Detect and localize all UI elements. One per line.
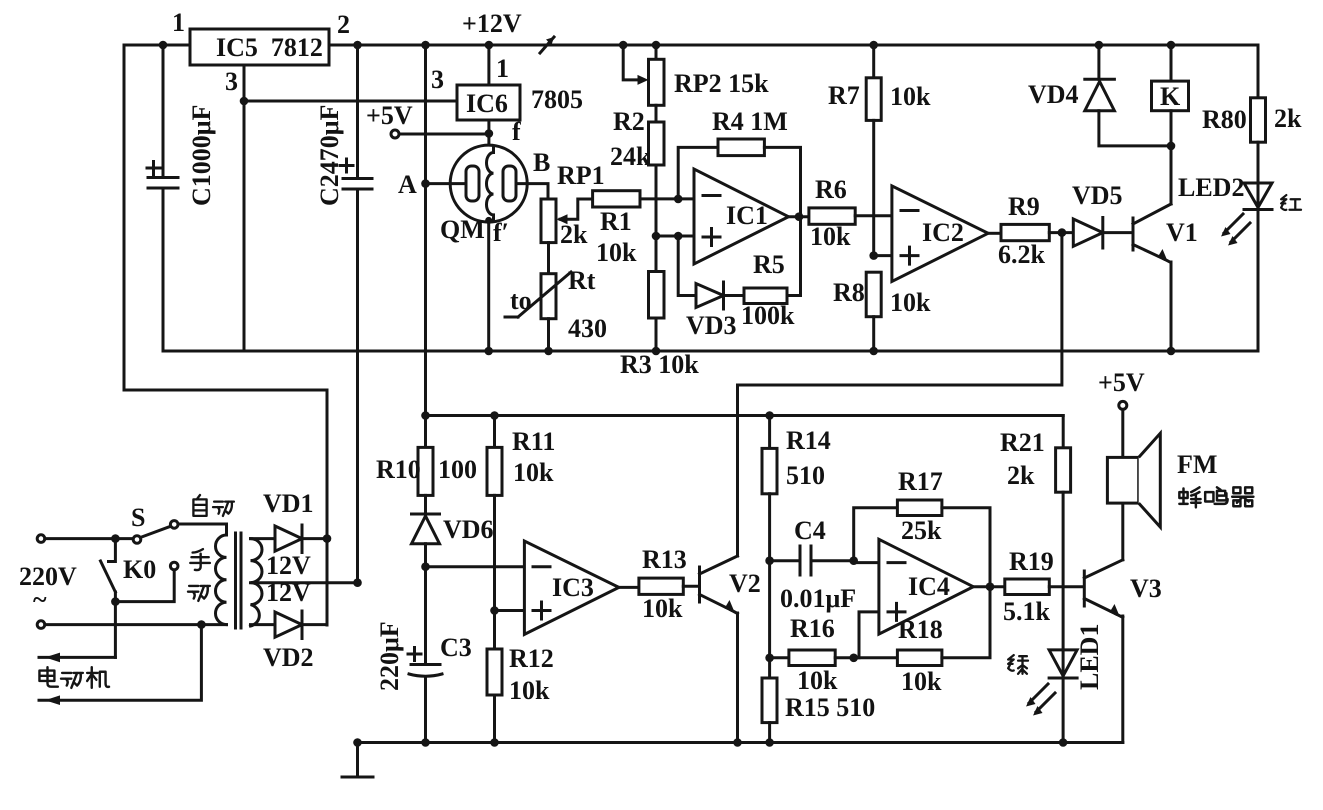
resistor R21 2k bbox=[1000, 416, 1071, 650]
wire break slash on top bus bbox=[540, 37, 554, 53]
switch manual contact bbox=[115, 549, 209, 601]
potentiometer RP1 2k bbox=[541, 161, 605, 249]
resistor R4 1M feedback bbox=[678, 107, 800, 217]
LED1 green bbox=[1008, 624, 1104, 747]
svg-text:510: 510 bbox=[786, 461, 825, 490]
svg-text:K0: K0 bbox=[123, 555, 156, 584]
node: dot below IC6 bbox=[485, 129, 494, 138]
svg-text:B: B bbox=[533, 148, 550, 177]
svg-text:R21: R21 bbox=[1000, 428, 1045, 457]
svg-text:2: 2 bbox=[337, 10, 350, 39]
svg-text:3: 3 bbox=[431, 65, 444, 94]
node: dots on bottom bus bbox=[484, 347, 493, 356]
capacitor C1 C1000uF bbox=[147, 45, 216, 351]
svg-text:V2: V2 bbox=[729, 569, 761, 598]
svg-text:25k: 25k bbox=[901, 516, 942, 545]
resistor R3 10k bbox=[620, 272, 699, 380]
node A bbox=[398, 170, 466, 199]
node: minus input junction bbox=[674, 195, 683, 204]
node: C4 left dot bbox=[765, 556, 774, 565]
diode VD3 bbox=[678, 236, 744, 340]
transformer core bbox=[236, 533, 242, 628]
svg-text:6.2k: 6.2k bbox=[998, 240, 1046, 269]
resistor R80 2k bbox=[1202, 45, 1302, 183]
wire: top section bottom bus bbox=[163, 350, 1258, 353]
svg-text:V3: V3 bbox=[1130, 574, 1162, 603]
svg-text:R8: R8 bbox=[833, 278, 865, 307]
svg-text:3: 3 bbox=[225, 67, 238, 96]
wire: RP2 to R2 bbox=[655, 105, 658, 122]
op-amp IC2 bbox=[874, 186, 988, 282]
svg-text:VD1: VD1 bbox=[263, 489, 314, 518]
node 220V label bbox=[19, 562, 77, 614]
svg-text:R19: R19 bbox=[1009, 547, 1054, 576]
svg-text:2k: 2k bbox=[1274, 104, 1302, 133]
svg-text:V1: V1 bbox=[1166, 218, 1198, 247]
terminal 220V bottom bbox=[37, 621, 226, 629]
svg-text:10k: 10k bbox=[890, 288, 931, 317]
svg-text:f′: f′ bbox=[493, 218, 509, 247]
switch S auto contact bbox=[111, 495, 234, 543]
svg-text:S: S bbox=[131, 503, 145, 532]
svg-text:R9: R9 bbox=[1008, 192, 1040, 221]
wire: secondary center tap bbox=[251, 578, 362, 587]
node B bbox=[516, 148, 550, 199]
resistor R12 10k bbox=[487, 644, 554, 743]
svg-text:1: 1 bbox=[172, 8, 185, 37]
svg-text:R11: R11 bbox=[512, 427, 555, 456]
svg-text:IC4: IC4 bbox=[908, 572, 950, 601]
svg-text:R5: R5 bbox=[753, 250, 785, 279]
transformer T primary bbox=[215, 535, 226, 625]
svg-text:A: A bbox=[398, 170, 417, 199]
svg-text:R10: R10 bbox=[376, 455, 421, 484]
capacitor C3 220uF bbox=[375, 567, 472, 743]
svg-text:R13: R13 bbox=[642, 545, 687, 574]
node: dot x425 top bus bbox=[421, 41, 430, 50]
wire: V1 collector up to relay node bbox=[1170, 146, 1173, 204]
switch K0 manual bbox=[101, 539, 157, 658]
svg-text:R80: R80 bbox=[1202, 105, 1247, 134]
svg-text:R14: R14 bbox=[786, 426, 831, 455]
resistor R18 10k feedback bbox=[854, 587, 990, 696]
IC5 7812 regulator bbox=[172, 8, 350, 96]
wire: left edge from rectifier to IC5 input bbox=[124, 45, 327, 625]
svg-text:10k: 10k bbox=[596, 238, 637, 267]
resistor R13 10k bbox=[619, 545, 698, 623]
svg-text:10k: 10k bbox=[513, 458, 554, 487]
svg-text:LED1: LED1 bbox=[1075, 624, 1104, 690]
svg-text:IC3: IC3 bbox=[552, 573, 594, 602]
wire: motor line 2 bbox=[39, 620, 206, 705]
wire: +12V top bus bbox=[124, 44, 1258, 47]
svg-text:+5V: +5V bbox=[366, 101, 413, 130]
node: dot C1000 top bbox=[159, 41, 168, 50]
potentiometer RP2 15k bbox=[619, 41, 769, 106]
svg-text:10k: 10k bbox=[797, 666, 838, 695]
svg-text:100: 100 bbox=[438, 455, 477, 484]
svg-text:220μF: 220μF bbox=[375, 621, 404, 691]
svg-text:1: 1 bbox=[496, 54, 509, 83]
svg-text:5.1k: 5.1k bbox=[1003, 597, 1051, 626]
svg-text:R6: R6 bbox=[815, 175, 847, 204]
wire: R2 down to plus node bbox=[655, 165, 658, 272]
svg-text:to: to bbox=[510, 286, 532, 315]
diode VD4 bbox=[1028, 41, 1171, 146]
capacitor C4 0.01uF bbox=[770, 516, 857, 613]
svg-text:FM: FM bbox=[1177, 450, 1217, 479]
svg-text:VD3: VD3 bbox=[686, 311, 737, 340]
svg-text:10k: 10k bbox=[509, 676, 550, 705]
ground bbox=[342, 743, 373, 778]
svg-text:R2: R2 bbox=[613, 107, 645, 136]
svg-text:7805: 7805 bbox=[531, 85, 583, 114]
wire: R9 junction down to V2 collector bbox=[738, 233, 1062, 556]
svg-text:IC2: IC2 bbox=[922, 218, 964, 247]
svg-text:R17: R17 bbox=[898, 467, 943, 496]
svg-text:R3 10k: R3 10k bbox=[620, 350, 699, 379]
svg-text:LED2: LED2 bbox=[1178, 173, 1244, 202]
svg-text:R1: R1 bbox=[600, 207, 632, 236]
op-amp IC3 bbox=[426, 541, 619, 634]
svg-text:RP2 15k: RP2 15k bbox=[674, 69, 769, 98]
svg-text:QM: QM bbox=[440, 215, 485, 244]
resistor R7 10k bbox=[828, 41, 931, 256]
svg-text:f: f bbox=[512, 117, 521, 146]
svg-text:220V: 220V bbox=[19, 562, 77, 591]
wire: lower ground bus bbox=[353, 738, 1123, 747]
IC6 7805 regulator bbox=[431, 45, 583, 146]
thermistor Rt 430 bbox=[505, 266, 607, 351]
svg-text:10k: 10k bbox=[810, 222, 851, 251]
transformer T secondary 12V+12V bbox=[251, 539, 312, 626]
node: IC4 minus node dot bbox=[849, 556, 858, 565]
node: R9 output junction bbox=[1058, 228, 1067, 237]
node: dot IC6 pin1 on bus bbox=[485, 41, 494, 50]
svg-text:10k: 10k bbox=[642, 594, 683, 623]
svg-text:24k: 24k bbox=[610, 142, 651, 171]
terminal +5V buzzer supply bbox=[1098, 368, 1145, 457]
relay K bbox=[1152, 41, 1189, 204]
speaker FM buzzer bbox=[1107, 433, 1253, 560]
svg-text:VD6: VD6 bbox=[443, 515, 494, 544]
svg-text:C4: C4 bbox=[794, 516, 826, 545]
resistor R5 100k bbox=[741, 217, 801, 330]
node: VD1 cathode dot bbox=[323, 534, 332, 543]
capacitor C2 2470uF bbox=[315, 45, 372, 583]
svg-text:K: K bbox=[1160, 82, 1181, 111]
LED2 red bbox=[1178, 173, 1301, 351]
svg-text:2k: 2k bbox=[560, 220, 588, 249]
diode VD5 bbox=[1072, 181, 1131, 248]
svg-text:VD5: VD5 bbox=[1072, 181, 1123, 210]
resistor R6 10k bbox=[789, 175, 892, 251]
wire: IC5 pin3 down and to IC6 bbox=[244, 65, 457, 351]
wire: QM bottom to bus bbox=[487, 221, 490, 351]
svg-text:~: ~ bbox=[33, 585, 47, 614]
diode VD6 bbox=[412, 514, 494, 567]
diode VD2 bbox=[251, 611, 328, 672]
svg-text:+12V: +12V bbox=[462, 9, 522, 38]
diode VD1 bbox=[251, 489, 328, 553]
svg-text:10k: 10k bbox=[901, 667, 942, 696]
svg-text:R7: R7 bbox=[828, 81, 860, 110]
resistor R14 510 bbox=[762, 416, 831, 561]
node: IC1 output dot bbox=[795, 212, 804, 221]
svg-text:C2470μF: C2470μF bbox=[315, 105, 344, 206]
resistor R1 10k bbox=[593, 191, 694, 267]
transistor V1 bbox=[1133, 204, 1198, 355]
node: dot Rt bottom on bus bbox=[544, 347, 553, 356]
svg-text:R16: R16 bbox=[790, 614, 835, 643]
resistor R2 24k bbox=[610, 107, 664, 171]
svg-text:430: 430 bbox=[568, 314, 607, 343]
svg-text:2k: 2k bbox=[1007, 461, 1035, 490]
wire: plus input bbox=[652, 232, 694, 241]
transistor V3 bbox=[1084, 560, 1161, 743]
transistor V2 bbox=[700, 556, 761, 747]
wire: RP1 to Rt bbox=[547, 243, 550, 274]
resistor R9 6.2k bbox=[988, 192, 1073, 269]
svg-text:100k: 100k bbox=[741, 301, 795, 330]
svg-text:12V: 12V bbox=[266, 551, 311, 580]
wire: R14 node down to R16 node bbox=[765, 561, 774, 678]
sensor QM humidity cell bbox=[440, 145, 527, 247]
node: IC4 output dot bbox=[986, 582, 995, 591]
resistor R19 5.1k bbox=[973, 547, 1082, 626]
resistor R15 510 bbox=[762, 678, 875, 747]
svg-text:RP1: RP1 bbox=[557, 161, 605, 190]
resistor R16 10k bbox=[770, 614, 854, 695]
node: dot C2470 top bbox=[353, 41, 362, 50]
wire: vertical x425 from bus to lower rail bbox=[424, 45, 427, 416]
svg-text:IC5 7812: IC5 7812 bbox=[216, 33, 323, 62]
svg-text:R15 510: R15 510 bbox=[785, 693, 875, 722]
node: pin3 junction dot bbox=[240, 97, 249, 106]
resistor R11 10k bbox=[487, 416, 555, 650]
op-amp IC4 bbox=[854, 539, 974, 658]
terminal +5V output bbox=[366, 101, 489, 138]
node: IC3 minus node dot bbox=[421, 562, 430, 571]
svg-text:R4 1M: R4 1M bbox=[712, 107, 788, 136]
svg-text:C3: C3 bbox=[440, 633, 472, 662]
resistor R17 25k feedback bbox=[854, 467, 990, 587]
svg-text:R12: R12 bbox=[509, 644, 554, 673]
svg-text:IC6: IC6 bbox=[466, 89, 508, 118]
svg-text:10k: 10k bbox=[890, 82, 931, 111]
resistor R8 10k bbox=[833, 251, 931, 355]
svg-text:IC1: IC1 bbox=[726, 201, 768, 230]
svg-text:VD4: VD4 bbox=[1028, 80, 1079, 109]
wire: lower +12V rail y415 bbox=[421, 411, 1063, 420]
node +12V label bbox=[462, 9, 522, 38]
svg-text:VD2: VD2 bbox=[263, 643, 314, 672]
svg-text:0.01μF: 0.01μF bbox=[780, 584, 856, 613]
terminal 220V top bbox=[37, 535, 133, 543]
svg-text:C1000μF: C1000μF bbox=[187, 105, 216, 206]
wire: motor line 1 bbox=[39, 653, 115, 663]
node motor label bbox=[39, 667, 109, 688]
op-amp IC1 bbox=[694, 169, 789, 264]
node: IC3 plus node dot bbox=[490, 606, 499, 615]
svg-text:Rt: Rt bbox=[568, 266, 596, 295]
node: IC4 plus node dot bbox=[849, 654, 858, 663]
svg-text:+5V: +5V bbox=[1098, 368, 1145, 397]
resistor R10 100 bbox=[376, 416, 477, 515]
